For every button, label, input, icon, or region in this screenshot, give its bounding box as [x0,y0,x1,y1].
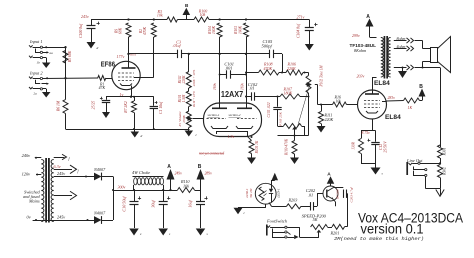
transistor Q200 oscillator [323,186,338,201]
resistor R3 label [157,9,163,17]
svg-text:245v: 245v [57,215,65,220]
wire speaker to line out divider [440,68,442,148]
wire EF86 plate [128,54,130,68]
wire HT upper [54,176,94,178]
resistor R203 label [288,198,298,203]
svg-text:R1M + 10%: R1M + 10% [192,91,196,108]
svg-text:500pf: 500pf [262,44,273,49]
svg-text:version 0.1: version 0.1 [361,222,424,238]
potentiometer P103 cut [278,122,305,136]
tube EL84 upper label [374,80,390,87]
resistor R16 10k [333,102,347,107]
wire R101-P1 [188,107,190,112]
svg-text:Line Out: Line Out [406,158,423,163]
svg-text:N4007: N4007 [93,210,106,215]
wire LDR to R203 [269,203,287,207]
tube 12AX7 label [221,89,244,99]
svg-text:C203 4.7uf: C203 4.7uf [350,186,354,202]
potentiometer P1 Volume 250K [186,111,191,128]
line out label [406,158,423,163]
resistor R101 label [178,94,186,104]
potentiometer P103 label [279,111,283,126]
svg-text:289v: 289v [205,171,213,175]
resistor R203 [287,204,302,209]
svg-text:B: B [198,164,202,170]
wire C203 to R201 [347,194,349,227]
svg-text:C103 .022: C103 .022 [267,102,271,117]
resistor R13 cathode EL84 [359,139,364,154]
transformer TF103 secondary [388,38,391,78]
ground below C100 [87,42,99,50]
wire rectifier join [112,177,114,221]
wire R106 to tone pot [303,72,309,76]
svg-text:300v: 300v [118,184,126,189]
svg-text:P103 25K: P103 25K [279,111,283,126]
tube 12AX7 cathodes [211,126,253,141]
wiper of P102 [307,82,318,105]
wire B+ rail left [91,18,167,20]
svg-text:68K: 68K [119,27,123,34]
ground below R111 [317,124,326,133]
label 245v lower [57,215,65,220]
svg-text:R301: R301 [443,147,447,156]
resistor R5 68K (input mix) [63,51,68,64]
svg-text:240v: 240v [22,153,31,158]
capacitor C202 .01 [301,202,317,210]
heater arrow 6.3v [54,165,80,174]
node 243v plate label [357,73,365,78]
svg-text:220K: 220K [182,75,186,84]
svg-text:169v: 169v [240,83,244,90]
node plate2 voltage label [240,83,244,90]
svg-text:s: s [382,172,384,176]
svg-text:0v: 0v [27,215,31,220]
resistor R104 label [208,25,216,34]
transformer TF103 primary [381,38,384,78]
resistor R108 label [263,62,273,71]
svg-text:100K: 100K [212,25,216,34]
svg-text:250K: 250K [182,115,186,123]
svg-text:169v: 169v [213,83,217,90]
resistor R3 10k [167,17,178,22]
footswitch label [266,219,288,224]
wire C202 to base [317,194,323,207]
node B supply arrow [183,3,191,20]
potentiometer P1 label [178,111,186,128]
svg-text:.01: .01 [249,86,255,91]
resistor R110 10k [171,188,201,193]
resistor R109 470K [292,136,297,155]
jack line out [407,162,427,176]
connector 4ohm [397,44,414,51]
svg-text:47K: 47K [99,86,106,90]
capacitor C2 25/25 (input bypass) [100,97,110,112]
svg-text:299v: 299v [352,33,360,38]
svg-text:not yet connected: not yet connected [199,152,224,156]
wire D1 out [102,176,114,178]
wire R16 to EL84 grid [347,104,358,106]
wire P1 to ground [188,128,190,130]
transformer PT core [45,158,50,223]
svg-text:1.5M: 1.5M [182,94,186,103]
svg-text:.01uf: .01uf [173,43,182,48]
svg-text:470K: 470K [143,26,147,35]
svg-text:EL84: EL84 [374,80,390,87]
resistor R2 100K (EF86 plate load) [126,23,131,54]
ground below C13 [196,229,209,237]
svg-text:2a: 2a [34,92,38,96]
transformer TF103 label [350,43,377,53]
capacitor C105 label [262,39,274,49]
capacitor C3 .01uf [178,50,182,58]
svg-text:f: f [69,157,71,161]
svg-text:BC208: BC208 [336,189,340,199]
svg-text:180K: 180K [284,90,293,95]
wire cathode bus [106,96,154,98]
svg-text:.01: .01 [308,193,313,198]
ground below jack J1 [29,56,50,68]
svg-text:271v: 271v [297,15,305,20]
transistor Q200 label [336,189,340,199]
wire EF86 cathode [131,86,133,97]
node 177v label [117,54,125,59]
svg-text:Input 2: Input 2 [29,71,43,76]
optocoupler LDR-1 label [245,187,253,198]
node 1.9v label [228,134,235,139]
capacitor C203 [334,188,348,198]
wire EF86 screen tap [134,77,154,79]
svg-text:c: c [196,133,198,137]
svg-text:470K: 470K [264,66,273,71]
capacitor C10 label [122,196,127,212]
svg-text:4W Choke: 4W Choke [132,170,150,175]
heater tap f arrow [54,154,71,161]
capacitor C1 label [159,101,163,114]
wire input1 junction [64,46,66,48]
resistor R16 label [334,95,342,104]
resistor R105 1K [249,136,254,154]
svg-text:Input 1: Input 1 [29,39,43,44]
capacitor C202 label [306,188,316,197]
wire HT lower [41,219,94,221]
svg-text:s: s [169,232,171,236]
svg-text:EF86: EF86 [101,61,115,68]
svg-text:4ohm: 4ohm [397,44,406,49]
resistor R6 1M (grid leak) [63,100,68,114]
svg-text:8.75v: 8.75v [362,131,371,135]
svg-text:10k: 10k [183,183,189,188]
wire ground bus [66,128,190,130]
wiper of SPEED [317,230,322,238]
choke 4W label [132,170,150,175]
optocoupler LDR-1 [255,183,276,204]
wire EL84 cathode [361,119,376,142]
svg-text:R7 2K2: R7 2K2 [124,101,128,114]
jack J2 input 2 [29,77,98,85]
ground below C10 [129,229,142,237]
resistor R105 label [255,140,259,154]
capacitor C13 16uf [196,190,208,228]
resistor R109 label [285,138,289,156]
node 271v label [297,15,305,20]
wire rail mid [178,19,195,21]
resistor R301 label [443,147,447,156]
resistor R6 label [57,100,61,112]
potentiometer SPEED-P200 5K [311,225,328,230]
resistor R7 2K2 (cathode) [132,97,137,129]
wire collector to A [327,171,335,186]
resistor R302 label [443,167,447,176]
resistor R100 10k [194,17,209,22]
resistor R201 2M [328,224,348,229]
resistor R110 label [180,179,190,188]
note R201 value [334,237,424,242]
svg-text:5K: 5K [313,217,318,222]
potentiometer P102 label [320,64,324,87]
svg-text:B: B [419,84,423,90]
wire cut pot bus [278,135,309,137]
svg-text:130R: 130R [352,141,356,149]
svg-text:R302: R302 [443,167,447,176]
diode D1 N4007 [93,167,106,180]
svg-text:R105 1K: R105 1K [255,140,259,154]
wire 4ohm tap [394,48,407,50]
capacitor C100 8uf [87,20,100,43]
gang line between pots [298,86,310,127]
svg-text:FootSwitch: FootSwitch [266,219,288,224]
resistor R12 value label [408,105,413,110]
label switched mains [23,190,40,204]
ground below LDR [234,208,246,215]
svg-text:R203: R203 [288,198,298,203]
svg-text:C1 10uf: C1 10uf [159,101,163,114]
resistor R103 100K [244,23,249,108]
ground on bus below R7 [131,129,143,138]
resistor R107 180K [280,94,300,99]
svg-text:245v: 245v [57,171,65,176]
tube EF86 label [101,61,115,68]
capacitor C104 8uf [305,20,318,45]
title version [361,222,424,238]
wire 0 tap [394,67,407,69]
ground below EL84 cathode [371,163,384,176]
wire R6 to ground bus [65,114,67,130]
svg-text:25/50V: 25/50V [384,141,388,153]
svg-text:EL84: EL84 [385,114,401,121]
capacitor C101 .001 [219,70,247,78]
svg-text:10k: 10k [157,12,163,17]
capacitor C203 label [350,186,354,202]
resistor R5 label [68,50,72,63]
resistor R100 label [198,9,207,17]
jack J1 input 1 [29,45,66,55]
ground below C2 [102,112,110,118]
svg-text:P102 Tone 1M: P102 Tone 1M [320,64,324,87]
svg-text:e: e [140,232,142,236]
wire footswitch to speed pot [287,227,319,237]
svg-text:d: d [141,134,143,138]
svg-text:120v: 120v [22,172,31,177]
wire EL84 screen [382,101,404,102]
ground below R105 [247,154,256,165]
transformer PT secondary coil [51,160,54,222]
label 120v [22,172,42,177]
wire D2 out [102,220,114,222]
wire C105 feed [246,53,270,55]
svg-text:A: A [167,164,171,170]
svg-text:section-2: section-2 [229,113,241,117]
resistor R104 100K [217,23,222,108]
wire R102-R101 [188,88,190,91]
svg-text:8Kohm: 8Kohm [354,48,366,53]
potentiometer SPEED label [302,213,327,222]
ground below C104 [305,44,314,51]
svg-text:8ohm: 8ohm [397,36,406,41]
wire C102 to R107 [260,96,281,98]
volume chain tolerance note [192,69,196,107]
mains arrow [54,191,77,200]
connector 8ohm [397,36,414,43]
ground below line out [436,189,444,197]
capacitor C102 label [248,82,258,91]
wire line out tap [420,161,441,165]
ground below jack J2 [29,87,50,98]
capacitor C103 label [267,102,271,117]
resistor R1 label [99,82,106,90]
node B arrow choke [197,164,213,190]
tube EL84 [358,90,387,119]
node plate1 voltage label [213,83,217,90]
svg-text:R201: R201 [330,231,340,236]
tube 12AX7 envelope [204,103,262,137]
svg-text:220K: 220K [325,117,334,122]
transformer PT primary coil [41,160,44,222]
capacitor C3 label [173,39,182,48]
net arrow to grid2 [271,173,278,184]
tube EF86 [112,61,140,89]
input 2 label [29,71,43,76]
svg-text:2M(need to make this higher): 2M(need to make this higher) [334,237,424,242]
choke 4W [133,177,164,191]
note not yet connected [199,152,224,156]
capacitor C11 label [151,200,156,208]
resistor R102 label [178,75,186,84]
resistor R9 label [139,26,147,35]
input 1 label [29,39,43,44]
svg-text:C10 50uf: C10 50uf [122,196,127,212]
capacitor C10 50uf [130,190,142,228]
svg-text:16uf: 16uf [188,200,193,208]
ground below P1 [185,129,198,137]
wiper of P1 to 12AX7 grid [188,116,204,121]
capacitor C104 label [297,23,301,38]
ground below C11 [158,229,171,237]
capacitor C13 label [188,200,193,208]
wire R107 to pot bottom [300,93,310,136]
label 245v upper [57,171,65,176]
svg-text:c: c [244,211,246,215]
capacitor C100 value label [79,23,83,38]
transformer TF103 core [384,36,388,79]
resistor R101 1.5M [186,91,191,107]
svg-text:aa: aa [50,51,54,55]
svg-text:100K: 100K [238,25,242,34]
capacitor C103 .022 [273,97,281,123]
title Vox AC4-2013DCA [358,211,463,227]
wire plate to C3 [127,53,177,57]
label 0v [27,215,42,222]
resistor R7 label [124,101,128,114]
capacitor C102 .01 [245,92,260,100]
svg-text:6.3v: 6.3v [54,164,61,169]
optocoupler LED-1 label [276,188,280,199]
label 240v [22,153,42,159]
svg-text:177v: 177v [117,54,125,59]
svg-text:1b: 1b [37,61,41,65]
capacitor C11 30uf [159,190,171,228]
wire speaker bottom [415,62,441,69]
capacitor C105 500pf [270,50,283,73]
capacitor C2 label [92,101,96,110]
tube 12AX7 plate bars [212,107,252,109]
svg-text:R6 1M: R6 1M [57,100,61,112]
resistor R13 label [352,141,356,149]
capacitor C12 label [379,141,388,153]
wire tone to R16 [318,104,333,106]
node 283v screen label [388,96,396,100]
potentiometer P102 Tone [306,76,311,94]
resistor R106 220K [286,70,303,75]
svg-text:5K 2W: 5K 2W [249,187,253,197]
resistor R107 label [283,87,293,96]
node tone junction [279,72,286,74]
wire rail right [209,18,309,20]
jack footswitch [267,225,291,236]
wire grid leak column [64,47,66,99]
wire EL84 cathode bottom [361,154,376,164]
diode D2 N4007 [93,210,106,224]
svg-text:Mains: Mains [28,199,40,204]
svg-text:sec1a: sec1a [130,53,137,56]
node 1v label [120,92,124,97]
resistor R108 470K [259,70,280,75]
wire C3 to volume chain [181,53,247,72]
resistor R1 47K (grid stopper) [98,76,112,81]
svg-text:.001: .001 [225,65,233,70]
svg-text:C12: C12 [379,144,383,151]
svg-text:203v: 203v [357,73,365,78]
svg-text:C100 8uf: C100 8uf [79,23,83,38]
resistor R111 label [324,113,334,122]
resistor R102 220K [186,72,191,89]
svg-text:10k: 10k [200,12,206,17]
capacitor C1 10uf (cathode bypass) [150,97,158,129]
svg-text:A: A [327,171,331,177]
resistor R9 470K (screen) [151,23,156,77]
svg-text:B: B [185,3,189,8]
node A arrow choke [167,164,183,190]
svg-text:10k: 10k [336,99,342,103]
svg-text:s: s [207,232,209,236]
svg-text:283v: 283v [388,96,396,100]
wiper of P103 [292,127,297,136]
capacitor C12 25/50V [368,139,380,163]
resistor R201 label [330,231,340,236]
wire jack sleeve to ground [426,177,441,189]
svg-text:f: f [78,169,80,173]
node B arrow at screen [419,84,426,101]
wire 8ohm tap [394,40,407,42]
